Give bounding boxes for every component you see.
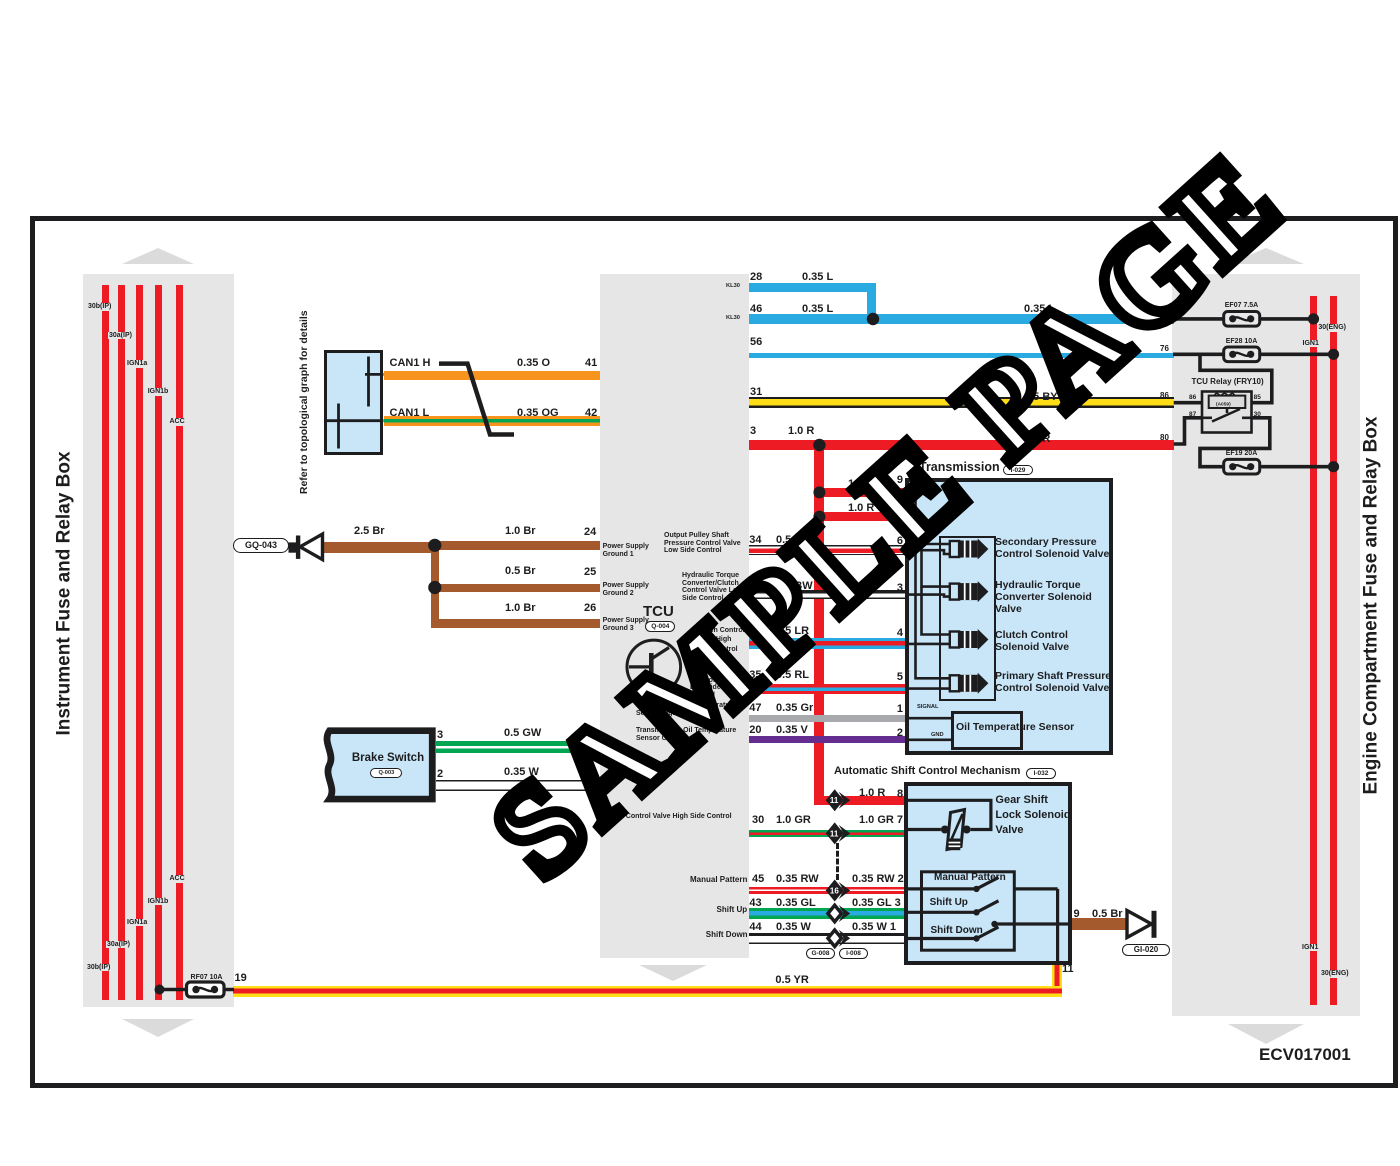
svg-text:SAMPLE PAGE: SAMPLE PAGE	[465, 124, 1311, 906]
